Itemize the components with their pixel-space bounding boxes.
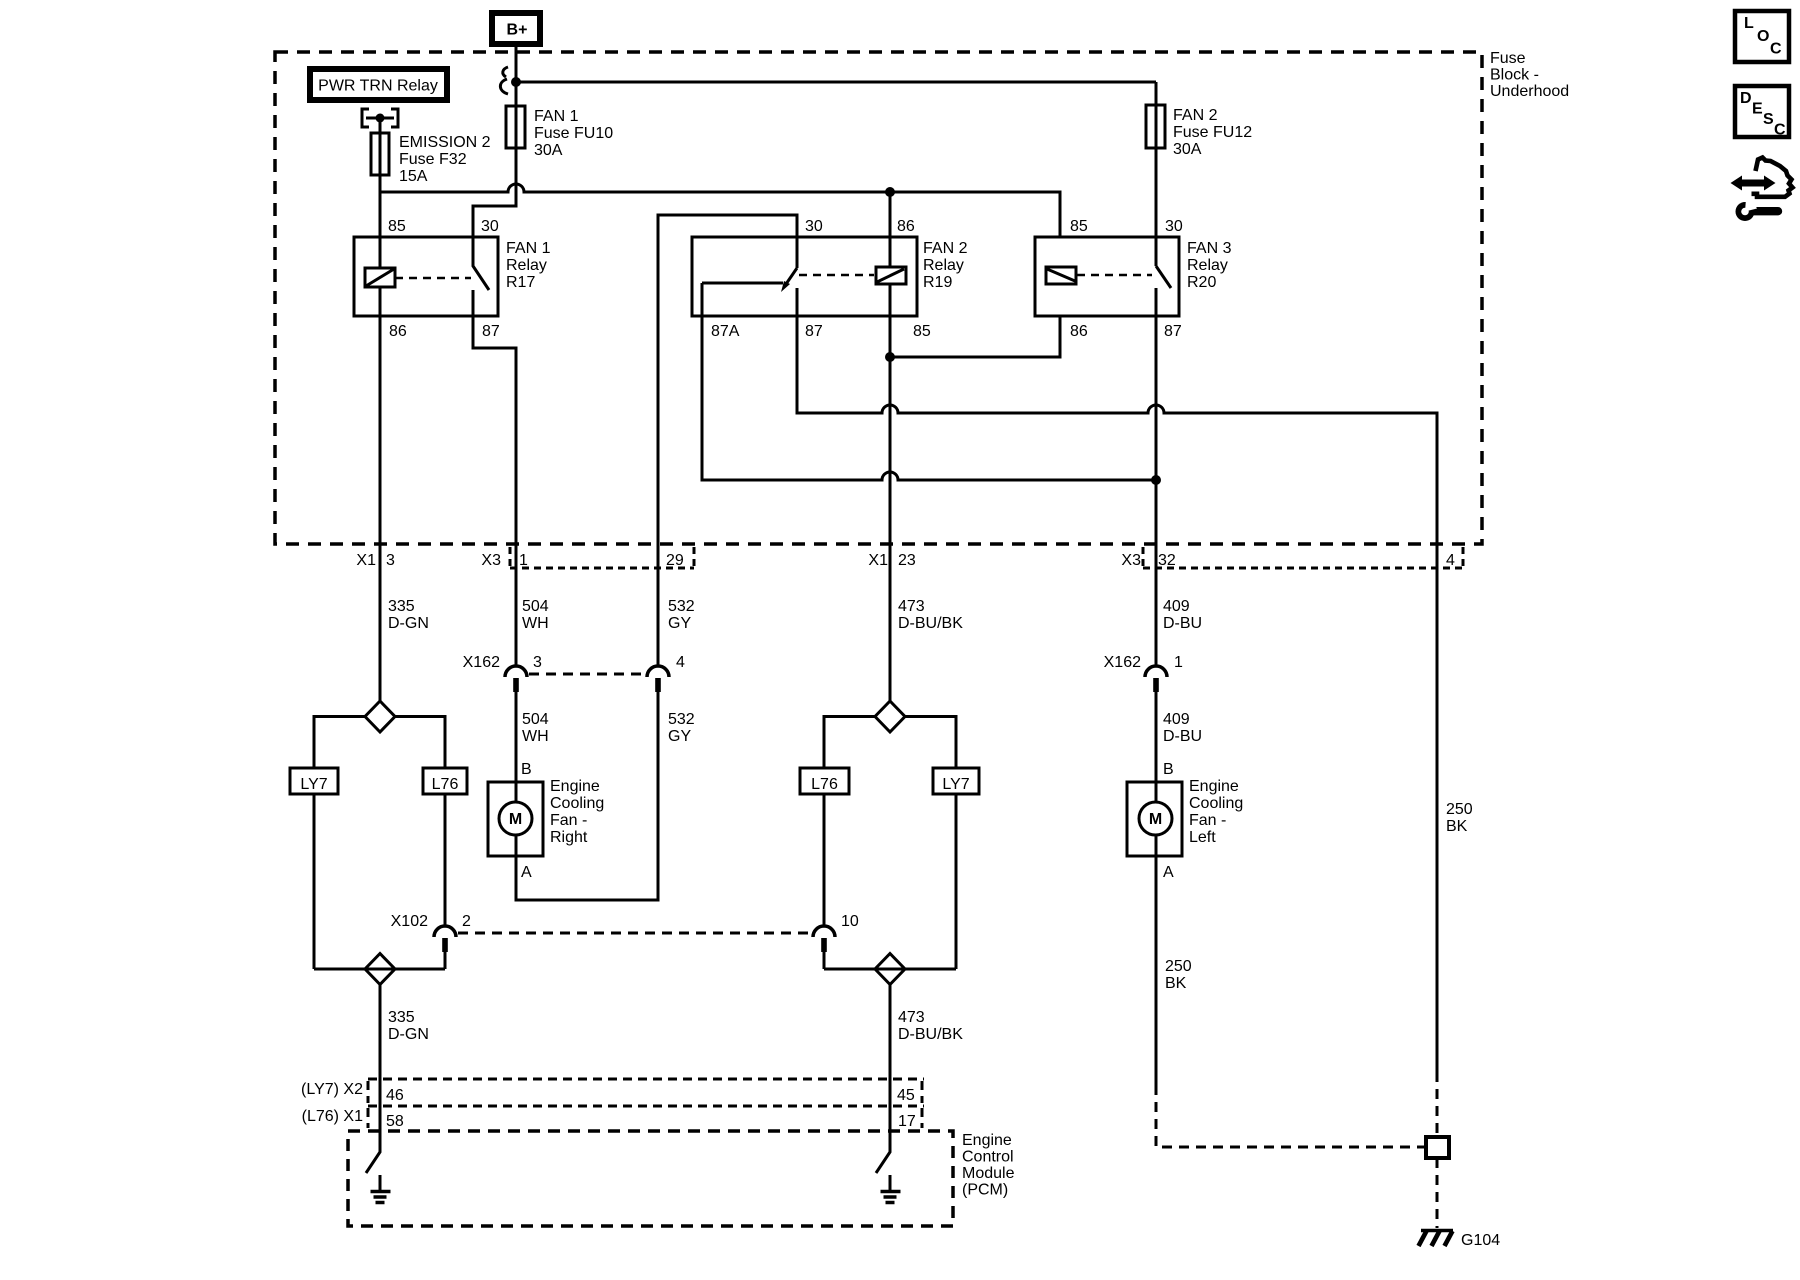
svg-text:15A: 15A	[399, 168, 428, 185]
connector X162 pin 1	[1104, 654, 1183, 692]
repair icon car outline	[1752, 158, 1793, 197]
svg-text:D: D	[1740, 90, 1752, 107]
engine cooling fan left label	[1189, 778, 1243, 846]
power node B+	[492, 13, 540, 44]
wire FAN2 87 output 250 BK right branch with hops	[797, 316, 1437, 1072]
relay R20 coil	[1046, 267, 1076, 284]
svg-text:1: 1	[1174, 654, 1183, 671]
svg-text:(LY7) X2: (LY7) X2	[301, 1081, 363, 1098]
svg-text:(L76) X1: (L76) X1	[302, 1108, 363, 1125]
relay R19 87A contact	[702, 282, 783, 285]
svg-text:250: 250	[1165, 958, 1192, 975]
junction B+ feed	[511, 77, 521, 87]
wire label 409 D-BU	[1163, 598, 1202, 632]
ECM connector row X1 dashed	[368, 1106, 924, 1128]
svg-text:X3: X3	[1121, 552, 1141, 569]
dashed splice down to G104	[1436, 1158, 1439, 1228]
wire X162-3 to right fan motor B	[515, 692, 518, 782]
option box L76 left	[423, 768, 467, 794]
svg-text:WH: WH	[522, 615, 549, 632]
svg-text:Relay: Relay	[506, 257, 547, 274]
ground ECM right	[881, 1175, 901, 1203]
relay R17 coil-switch link	[395, 277, 471, 280]
motor engine cooling fan left	[1127, 782, 1182, 856]
svg-text:B: B	[521, 761, 532, 778]
svg-text:32: 32	[1158, 552, 1176, 569]
svg-text:Fuse F32: Fuse F32	[399, 151, 467, 168]
relay R19 label	[923, 240, 968, 291]
svg-text:86: 86	[389, 323, 407, 340]
svg-text:4: 4	[676, 654, 685, 671]
svg-text:R20: R20	[1187, 274, 1216, 291]
fuse block label	[1490, 50, 1569, 100]
svg-text:G104: G104	[1461, 1232, 1500, 1249]
wire FAN2 pin 86 from feed bus into coil	[889, 192, 892, 267]
svg-text:A: A	[1163, 864, 1174, 881]
splice box S resistor-style	[1426, 1137, 1449, 1158]
ECM row labels LY7 X2	[301, 1081, 915, 1104]
PWR TRN Relay node	[310, 69, 447, 100]
wire link FAN2 85 to FAN3 86	[890, 316, 1060, 357]
wire FAN2 pin 85 down to connector X1-23 and diamond	[889, 284, 892, 701]
svg-text:LY7: LY7	[942, 776, 969, 793]
svg-text:L76: L76	[432, 776, 459, 793]
connector box X3 32-4 dashed	[1143, 547, 1463, 568]
relay R20 FAN 3 box	[1035, 237, 1179, 316]
clip symbol on B+ wire	[500, 67, 508, 94]
svg-text:(PCM): (PCM)	[962, 1182, 1008, 1199]
svg-text:L: L	[1744, 15, 1754, 32]
relay R20 label	[1187, 240, 1232, 291]
relay R19 switch arm pin 30 to 87A	[781, 268, 797, 292]
relay R17 label	[506, 240, 551, 291]
svg-text:Block -: Block -	[1490, 67, 1539, 84]
engine cooling fan right label	[550, 778, 604, 846]
connector row labels X3 1	[481, 552, 528, 569]
svg-text:Left: Left	[1189, 829, 1216, 846]
wire FU12 down to FAN3 relay pin 30	[1155, 82, 1158, 266]
wire label 504 WH lower	[522, 711, 549, 745]
svg-text:532: 532	[668, 711, 695, 728]
ground ECM left	[371, 1175, 391, 1203]
svg-text:C: C	[1774, 122, 1786, 139]
wire label 504 WH	[522, 598, 549, 632]
wire B+ feed to FAN 2 fuse	[516, 81, 1156, 84]
svg-text:Engine: Engine	[550, 778, 600, 795]
ground G104	[1419, 1231, 1501, 1250]
svg-text:WH: WH	[522, 728, 549, 745]
svg-text:Engine: Engine	[962, 1132, 1012, 1149]
wire label 532 GY lower	[668, 711, 695, 745]
dashed X162 3-4 link	[529, 673, 645, 676]
svg-text:GY: GY	[668, 615, 691, 632]
wire FAN1 pin 86 down to connector X1-3 and diamond	[379, 287, 382, 701]
svg-text:D-GN: D-GN	[388, 615, 429, 632]
svg-text:4: 4	[1446, 552, 1455, 569]
svg-text:1: 1	[519, 552, 528, 569]
svg-text:M: M	[1149, 811, 1162, 828]
svg-text:X3: X3	[481, 552, 501, 569]
svg-text:R19: R19	[923, 274, 952, 291]
fuse F32 EMISSION 2 15A	[371, 133, 491, 185]
wire LY7 branch down	[313, 794, 316, 969]
connector row labels X1 23	[868, 552, 915, 569]
PWR TRN relay output terminal symbol	[362, 109, 398, 127]
svg-text:17: 17	[898, 1113, 916, 1130]
connector row labels X3 32	[1121, 552, 1175, 569]
connector X162 pin 3	[463, 654, 542, 692]
svg-text:R17: R17	[506, 274, 535, 291]
option box LY7 right	[933, 768, 979, 794]
svg-text:FAN 2: FAN 2	[1173, 107, 1218, 124]
fuse block underhood dashed border	[275, 52, 1482, 544]
wire coil feed bus to FAN2 86 and FAN3 85 with hop over FU10 wire	[380, 184, 1060, 237]
relay R19 87 stub	[796, 288, 799, 316]
option box L76 right	[800, 768, 849, 794]
wire 473 D-BU/BK to ECM	[889, 985, 892, 1153]
svg-text:L76: L76	[811, 776, 838, 793]
svg-text:3: 3	[533, 654, 542, 671]
merge line left branch	[314, 968, 445, 971]
svg-text:X102: X102	[391, 913, 428, 930]
svg-text:46: 46	[386, 1087, 404, 1104]
svg-text:3: 3	[386, 552, 395, 569]
wire label 335 D-GN	[388, 598, 429, 632]
svg-text:M: M	[509, 811, 522, 828]
wire PWR TRN to EMISSION 2 fuse to FAN1 relay pin 85	[379, 118, 382, 268]
connector X102 pin 2	[391, 913, 471, 952]
svg-text:2: 2	[462, 913, 471, 930]
wire label 473 D-BU/BK	[898, 598, 963, 632]
svg-text:E: E	[1752, 101, 1763, 118]
wire label 532 GY	[668, 598, 695, 632]
svg-text:Relay: Relay	[1187, 257, 1228, 274]
svg-text:Fuse FU10: Fuse FU10	[534, 125, 613, 142]
svg-text:335: 335	[388, 598, 415, 615]
wire X102-2 down to merge	[444, 952, 447, 969]
wire label 409 D-BU lower	[1163, 711, 1202, 745]
svg-text:30: 30	[805, 218, 823, 235]
svg-text:87: 87	[805, 323, 823, 340]
merge line right branch	[824, 968, 956, 971]
diamond splice 473 upper	[875, 701, 905, 732]
svg-text:335: 335	[388, 1009, 415, 1026]
relay R19 coil-switch link	[799, 274, 874, 277]
svg-text:PWR TRN Relay: PWR TRN Relay	[318, 78, 438, 95]
wire branch to LY7 right	[905, 717, 956, 769]
dashed X102 2-10 link	[458, 932, 811, 935]
wire branch to L76 right	[824, 717, 875, 769]
svg-text:409: 409	[1163, 711, 1190, 728]
ECM PCM dashed box	[348, 1131, 953, 1226]
connector X102 pin 10	[813, 913, 859, 952]
svg-text:85: 85	[913, 323, 931, 340]
svg-text:Control: Control	[962, 1149, 1014, 1166]
svg-text:30A: 30A	[534, 142, 563, 159]
svg-text:Fuse: Fuse	[1490, 50, 1526, 67]
svg-text:504: 504	[522, 598, 549, 615]
ECM driver switch 473	[876, 1131, 890, 1173]
svg-text:GY: GY	[668, 728, 691, 745]
relay R17 FAN 1 box	[354, 237, 498, 316]
svg-text:409: 409	[1163, 598, 1190, 615]
ECM label	[962, 1132, 1015, 1199]
relay R17 switch arm pin 30 to 87	[473, 237, 489, 316]
svg-text:Relay: Relay	[923, 257, 964, 274]
svg-text:Module: Module	[962, 1165, 1015, 1182]
svg-text:87: 87	[1164, 323, 1182, 340]
svg-text:C: C	[1770, 41, 1782, 58]
relay R20 switch arm	[1156, 266, 1171, 316]
wire FAN2 87A to FAN3 87 with hop	[702, 283, 1156, 480]
svg-text:473: 473	[898, 1009, 925, 1026]
wire X162-1 to left fan motor B	[1155, 692, 1158, 782]
svg-text:250: 250	[1446, 801, 1473, 818]
junction FAN2 85 to FAN3 86 link	[885, 352, 895, 362]
svg-text:Cooling: Cooling	[550, 795, 604, 812]
svg-text:30: 30	[1165, 218, 1183, 235]
fuse FU10 FAN 1 30A	[506, 106, 613, 159]
svg-text:B+: B+	[507, 22, 528, 39]
svg-text:504: 504	[522, 711, 549, 728]
svg-text:29: 29	[666, 552, 684, 569]
ECM row labels L76 X1	[302, 1108, 916, 1130]
wire B+ feed down through FAN1 fuse to relay pin 30	[473, 47, 516, 237]
svg-text:FAN 1: FAN 1	[534, 108, 579, 125]
connector row labels X1 3	[356, 552, 395, 569]
wire branch to L76 left	[395, 717, 445, 769]
svg-text:Underhood: Underhood	[1490, 83, 1569, 100]
svg-text:473: 473	[898, 598, 925, 615]
svg-text:LY7: LY7	[300, 776, 327, 793]
svg-text:X162: X162	[463, 654, 500, 671]
svg-text:Cooling: Cooling	[1189, 795, 1243, 812]
wire label 473 D-BU/BK lower	[898, 1009, 963, 1043]
svg-text:85: 85	[388, 218, 406, 235]
wire FAN1 pin 87 to connector X3-1 down to X162-3	[473, 316, 516, 666]
wire label 250 BK left	[1165, 958, 1192, 992]
svg-text:D-BU: D-BU	[1163, 728, 1202, 745]
DESC nav box	[1735, 86, 1789, 139]
wire X102-10 down to merge	[823, 952, 826, 969]
connector box X3 1-29 dashed	[510, 547, 694, 568]
svg-text:30A: 30A	[1173, 141, 1202, 158]
svg-text:FAN 2: FAN 2	[923, 240, 968, 257]
svg-text:B: B	[1163, 761, 1174, 778]
svg-text:D-GN: D-GN	[388, 1026, 429, 1043]
svg-text:45: 45	[897, 1087, 915, 1104]
svg-text:10: 10	[841, 913, 859, 930]
svg-text:D-BU/BK: D-BU/BK	[898, 1026, 963, 1043]
svg-text:O: O	[1757, 28, 1769, 45]
svg-text:X1: X1	[356, 552, 376, 569]
svg-text:D-BU/BK: D-BU/BK	[898, 615, 963, 632]
wire 335 D-GN to ECM	[379, 985, 382, 1153]
svg-text:86: 86	[1070, 323, 1088, 340]
diamond splice 473 lower	[875, 954, 905, 985]
svg-text:86: 86	[897, 218, 915, 235]
wire left fan A down 250 BK	[1155, 856, 1158, 1085]
svg-text:85: 85	[1070, 218, 1088, 235]
diamond splice 335 upper	[365, 701, 395, 732]
svg-text:D-BU: D-BU	[1163, 615, 1202, 632]
ECM driver switch 335	[366, 1131, 380, 1173]
svg-text:BK: BK	[1446, 818, 1468, 835]
svg-text:FAN 3: FAN 3	[1187, 240, 1232, 257]
svg-text:EMISSION 2: EMISSION 2	[399, 134, 491, 151]
motor engine cooling fan right	[488, 782, 543, 856]
svg-text:Fan -: Fan -	[550, 812, 587, 829]
svg-text:FAN 1: FAN 1	[506, 240, 551, 257]
option box LY7 left	[290, 768, 338, 794]
wire label 335 D-GN lower	[388, 1009, 429, 1043]
connector X162 pin 4	[647, 654, 685, 692]
svg-text:S: S	[1763, 111, 1774, 128]
svg-text:X162: X162	[1104, 654, 1141, 671]
LOC nav box	[1735, 11, 1789, 62]
junction coil feed at FAN2 pin 86	[885, 187, 895, 197]
wire right fan A to connector 29 via 532 GY	[516, 692, 658, 900]
svg-text:30: 30	[481, 218, 499, 235]
diamond splice 335 lower	[365, 954, 395, 985]
svg-text:BK: BK	[1165, 975, 1187, 992]
svg-text:A: A	[521, 864, 532, 881]
junction 87A link at FAN3 87 wire	[1151, 475, 1161, 485]
svg-text:Fan -: Fan -	[1189, 812, 1226, 829]
wire label 250 BK right	[1446, 801, 1473, 835]
wire connector 29 up to FAN2 relay pin 30	[658, 215, 797, 666]
wire L76 branch down to X102-2	[444, 794, 447, 926]
repair icon wrench	[1736, 199, 1783, 221]
svg-text:87A: 87A	[711, 323, 740, 340]
svg-text:Fuse FU12: Fuse FU12	[1173, 124, 1252, 141]
repair icon double arrow	[1731, 176, 1776, 191]
svg-text:Engine: Engine	[1189, 778, 1239, 795]
svg-text:58: 58	[386, 1113, 404, 1130]
wire FAN3 87 down to connector X3-32 and X162-1	[1155, 316, 1158, 666]
svg-text:87: 87	[482, 323, 500, 340]
wire L76 right down to X102-10	[823, 794, 826, 926]
svg-text:23: 23	[898, 552, 916, 569]
relay R17 coil	[365, 268, 395, 287]
wire branch to LY7 left	[314, 717, 365, 769]
ECM connector row X2 dashed	[368, 1079, 924, 1103]
dashed splice to right branch	[1436, 1072, 1439, 1135]
relay R20 coil-switch link	[1077, 274, 1152, 277]
relay R19 FAN 2 box	[692, 237, 917, 316]
wire LY7 right down	[955, 794, 958, 969]
fuse FU12 FAN 2 30A	[1146, 105, 1252, 158]
svg-text:X1: X1	[868, 552, 888, 569]
svg-text:Right: Right	[550, 829, 588, 846]
relay R19 coil	[876, 267, 906, 284]
svg-text:532: 532	[668, 598, 695, 615]
dashed 250 BK to splice	[1156, 1085, 1424, 1147]
